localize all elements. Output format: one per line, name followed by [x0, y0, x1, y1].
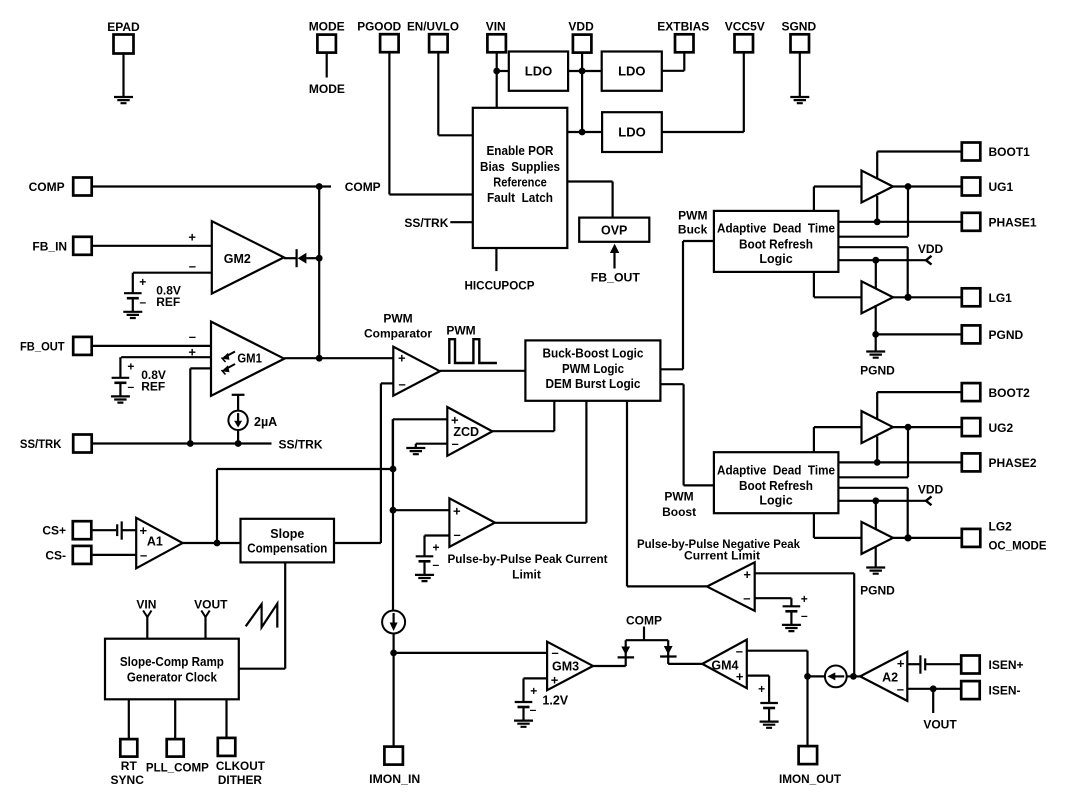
wire GM2 output to diode — [284, 257, 297, 259]
wire UG2 sense — [907, 427, 909, 477]
svg-text:–: – — [189, 259, 196, 274]
LDO regulator 3 — [602, 112, 662, 152]
svg-text:PWM: PWM — [383, 312, 412, 326]
svg-text:Boot Refresh: Boot Refresh — [739, 479, 813, 493]
wire A1 output to slope compensation — [183, 542, 241, 544]
svg-text:–: – — [801, 608, 808, 622]
node COMP junction — [316, 183, 323, 190]
battery 0.8V REF for GM2 — [124, 292, 142, 294]
svg-text:VIN: VIN — [136, 598, 156, 612]
wire LG sense — [838, 246, 907, 248]
wire VOUT stub — [932, 689, 934, 713]
svg-text:Limit: Limit — [512, 568, 541, 582]
svg-text:+: + — [139, 275, 146, 289]
wire GM4 + input — [747, 674, 769, 676]
op-amp GM3 — [547, 642, 593, 691]
wire current source to A2 — [847, 675, 860, 677]
wire EXTBIAS to LDO2 — [683, 52, 685, 71]
pin PHASE1 — [962, 213, 981, 231]
svg-text:CLKOUT: CLKOUT — [216, 759, 266, 773]
wire LG output — [893, 296, 962, 298]
svg-text:LG1: LG1 — [989, 291, 1013, 305]
wire GM3 output — [593, 665, 626, 667]
wire COMP to vertical bus — [92, 185, 331, 187]
svg-text:Generator Clock: Generator Clock — [127, 671, 217, 685]
pin BOOT2 — [962, 383, 981, 401]
svg-text:LDO: LDO — [618, 125, 645, 140]
wire GM1 + input — [121, 356, 211, 358]
svg-text:–: – — [399, 377, 406, 392]
wire UG1 sense — [907, 187, 909, 237]
svg-text:VDD: VDD — [918, 242, 944, 256]
pin COMP — [73, 178, 92, 196]
wire VDD vertical — [581, 53, 583, 132]
comparator pulse-by-pulse negative peak current limit — [707, 562, 755, 611]
svg-text:COMP: COMP — [626, 614, 662, 628]
current source IMON — [382, 611, 405, 634]
svg-text:SS/TRK: SS/TRK — [279, 438, 323, 452]
wire PWM comparator - input — [381, 382, 393, 384]
svg-text:+: + — [743, 567, 751, 582]
svg-text:VDD: VDD — [568, 20, 594, 34]
svg-text:PGND: PGND — [860, 584, 895, 598]
wire BOOT2 — [876, 392, 878, 434]
svg-text:VOUT: VOUT — [194, 598, 228, 612]
node PHASE1 junction — [874, 218, 881, 225]
arrow VIN into ramp box — [143, 611, 151, 618]
node VOUT junction — [930, 685, 937, 692]
pin SS/TRK — [73, 435, 92, 453]
node GM3 - junction — [390, 650, 397, 657]
pin CS+ — [73, 521, 92, 539]
wire A2 - input to ISEN- pin — [907, 688, 962, 690]
svg-text:Fault Latch: Fault Latch — [487, 191, 553, 205]
svg-text:LDO: LDO — [618, 64, 645, 79]
wire IMON bus below source — [393, 634, 395, 747]
wire capacitor to ISEN+ pin — [925, 663, 962, 665]
pin UG2 — [962, 418, 981, 436]
svg-text:Buck-Boost Logic: Buck-Boost Logic — [543, 346, 644, 360]
svg-text:VCC5V: VCC5V — [725, 20, 765, 34]
wire ZCD + input — [393, 418, 448, 420]
svg-text:Compensation: Compensation — [247, 542, 327, 556]
svg-text:MODE: MODE — [309, 82, 345, 96]
svg-text:–: – — [189, 329, 196, 344]
buffer lower gate driver — [862, 281, 894, 313]
wire PGND2 to ground — [875, 546, 877, 568]
node PHASE2 junction — [874, 459, 881, 466]
wire PHASE1 — [838, 221, 962, 223]
svg-text:PWM: PWM — [678, 209, 707, 223]
sawtooth symbol — [246, 604, 278, 628]
svg-text:–: – — [736, 644, 743, 659]
wire HICCUPOCP from Enable box — [495, 248, 497, 271]
svg-text:DEM Burst Logic: DEM Burst Logic — [546, 377, 641, 391]
svg-text:–: – — [743, 591, 750, 606]
svg-text:FB_OUT: FB_OUT — [20, 339, 65, 353]
wire peak limit + input — [393, 509, 449, 511]
svg-text:RT: RT — [121, 759, 138, 773]
ground EPAD — [114, 97, 133, 103]
svg-text:GM2: GM2 — [224, 252, 251, 266]
svg-text:1.2V: 1.2V — [542, 694, 568, 708]
svg-text:–: – — [139, 295, 146, 309]
svg-text:UG1: UG1 — [989, 180, 1014, 194]
svg-text:GM1: GM1 — [237, 351, 262, 365]
svg-text:Slope: Slope — [270, 527, 304, 541]
ground SGND — [790, 97, 809, 103]
wire GM2 - input — [133, 272, 212, 274]
svg-text:LDO: LDO — [525, 64, 552, 79]
wire capacitor to A1 + input — [122, 529, 137, 531]
wire GM1 output to PWM comparator — [284, 357, 393, 359]
ground PGND2 — [866, 568, 885, 574]
node GM2 diode junction — [316, 255, 323, 262]
pin PLL_COMP — [167, 739, 184, 757]
svg-text:Boot Refresh: Boot Refresh — [739, 238, 813, 252]
svg-text:ZCD: ZCD — [453, 425, 479, 439]
battery peak limit ref — [416, 555, 434, 557]
buffer upper gate driver — [862, 171, 894, 203]
svg-text:VIN: VIN — [486, 20, 506, 34]
pin PGND — [962, 325, 981, 343]
wire slope line y469 — [217, 468, 393, 470]
pin LG1 — [962, 288, 981, 306]
node A1 output junction — [214, 540, 221, 547]
pin EXTBIAS — [675, 34, 694, 52]
node UG junction — [905, 424, 912, 431]
wire RT — [128, 699, 130, 739]
PWM waveform symbol — [449, 339, 497, 364]
battery GM4 ref — [760, 702, 778, 704]
capacitor A1 input — [116, 524, 118, 536]
pin FB_IN — [73, 237, 92, 255]
svg-text:Adaptive Dead Time: Adaptive Dead Time — [717, 222, 835, 236]
wire EN/UVLO to Enable POR box — [437, 52, 439, 135]
svg-text:PGND: PGND — [989, 328, 1024, 342]
svg-text:BOOT1: BOOT1 — [989, 145, 1031, 159]
wire junction to A2 current source — [808, 675, 825, 677]
pin CLKOUT — [218, 738, 236, 756]
svg-text:EN/UVLO: EN/UVLO — [407, 20, 459, 34]
svg-text:LG2: LG2 — [989, 520, 1013, 534]
svg-text:–: – — [128, 379, 135, 393]
svg-text:+: + — [398, 351, 406, 366]
ground ZCD — [406, 448, 425, 454]
arrow VDD — [926, 496, 932, 505]
wire dead-time box to lower driver input — [813, 513, 815, 538]
svg-text:SYNC: SYNC — [111, 773, 145, 787]
svg-text:EXTBIAS: EXTBIAS — [657, 20, 709, 34]
svg-text:ISEN-: ISEN- — [989, 684, 1021, 698]
svg-text:IMON_IN: IMON_IN — [369, 772, 420, 786]
svg-text:EPAD: EPAD — [107, 20, 140, 34]
svg-text:REF: REF — [141, 379, 165, 393]
wire SS/TRK to Enable box — [450, 221, 473, 223]
svg-text:PWM: PWM — [446, 324, 475, 338]
svg-text:FB_IN: FB_IN — [32, 239, 67, 253]
svg-text:+: + — [530, 684, 537, 698]
Slope-Comp Ramp Generator Clock block — [105, 639, 239, 700]
svg-text:CS-: CS- — [45, 548, 66, 562]
COMP mirror left diode — [625, 640, 627, 666]
svg-text:+: + — [897, 656, 905, 671]
svg-text:VDD: VDD — [918, 482, 944, 496]
wire VDD supply line — [838, 259, 926, 261]
wire GM4 - input — [747, 650, 808, 652]
svg-text:OC_MODE: OC_MODE — [989, 539, 1047, 553]
wire VIN to LDO1 — [497, 70, 509, 72]
svg-text:COMP: COMP — [345, 180, 381, 194]
node VIN-LDO junction — [493, 68, 500, 75]
node VDD junction — [872, 257, 879, 264]
wire LDO1 to LDO2 — [568, 70, 602, 72]
pin MODE — [317, 35, 336, 53]
wire current-limit bus vertical — [392, 419, 394, 611]
wire Enable box to LDO3 — [567, 131, 602, 133]
pin IMON_OUT — [799, 746, 818, 764]
wire FB_IN to GM2 + input — [92, 245, 212, 247]
wire ZCD output to logic box — [492, 430, 554, 432]
svg-text:UG2: UG2 — [989, 421, 1014, 435]
svg-text:PHASE2: PHASE2 — [989, 456, 1037, 470]
Adaptive Dead Time Boot Refresh Logic block 2 — [714, 452, 839, 513]
svg-text:CS+: CS+ — [42, 524, 66, 538]
node UG junction — [905, 183, 912, 190]
svg-text:+: + — [432, 540, 439, 554]
GM1 internal arrows — [224, 352, 235, 358]
pin RT — [120, 739, 137, 757]
wire dead-time box to upper driver input (UG1) — [813, 187, 815, 211]
wire peak limit output to logic box — [495, 522, 587, 524]
op-amp PWM comparator — [393, 347, 440, 396]
node VDD junction — [872, 497, 879, 504]
node LG junction — [904, 294, 911, 301]
battery 0.8V REF for GM1 — [112, 377, 130, 379]
svg-text:Buck: Buck — [678, 223, 708, 237]
ground PGND1 — [866, 352, 885, 358]
svg-text:Bias Supplies: Bias Supplies — [480, 160, 560, 174]
wire UG1 output — [893, 185, 962, 187]
svg-text:SS/TRK: SS/TRK — [20, 437, 62, 451]
pin CS- — [73, 546, 92, 564]
wire PGOOD to Enable POR box — [388, 52, 390, 194]
wire dead-time box to lower driver input — [813, 272, 815, 297]
pin PGOOD — [380, 34, 399, 52]
Buck-Boost PWM DEM logic block — [525, 340, 660, 400]
node SS/TRK junction 2 — [235, 440, 242, 447]
svg-text:SGND: SGND — [781, 20, 816, 34]
svg-text:+: + — [758, 682, 765, 696]
current source A2 output — [825, 666, 847, 688]
svg-text:–: – — [530, 702, 537, 716]
node A2 apex junction — [850, 673, 857, 680]
svg-text:SS/TRK: SS/TRK — [404, 216, 448, 230]
svg-text:–: – — [552, 645, 559, 660]
comparator ZCD — [447, 407, 492, 456]
svg-text:Comparator: Comparator — [364, 327, 432, 341]
wire VIN down into Enable POR box — [496, 52, 498, 108]
wire CS+ to capacitor — [91, 529, 116, 531]
wire PGND1 to ground — [875, 334, 877, 351]
wire IMON_OUT — [806, 676, 808, 746]
wire PLL_COMP — [174, 699, 176, 739]
wire A2 + input to capacitor — [907, 663, 921, 665]
node LG junction — [904, 534, 911, 541]
wire Enable box to OVP — [567, 180, 612, 182]
capacitor ISEN+ — [919, 655, 921, 673]
svg-text:VOUT: VOUT — [923, 718, 957, 732]
svg-text:2µA: 2µA — [254, 415, 277, 429]
node PGND1 junction — [872, 331, 879, 338]
wire ramp box to slope compensation — [239, 668, 285, 670]
pin LG2 — [962, 529, 981, 547]
wire SGND to ground — [799, 52, 801, 97]
pin VDD — [573, 35, 592, 53]
svg-text:Current Limit: Current Limit — [684, 549, 760, 563]
Slope Compensation block — [241, 519, 335, 563]
wire LG sense — [838, 487, 907, 489]
svg-text:Logic: Logic — [759, 252, 792, 266]
current source 2uA — [232, 394, 245, 396]
Enable POR Bias Supplies Reference Fault Latch block — [473, 108, 568, 248]
svg-text:HICCUPOCP: HICCUPOCP — [465, 279, 535, 293]
svg-text:+: + — [551, 673, 559, 688]
diode at GM2 output — [296, 249, 298, 267]
svg-text:Reference: Reference — [493, 176, 547, 190]
svg-text:Slope-Comp Ramp: Slope-Comp Ramp — [120, 655, 224, 669]
svg-text:PHASE1: PHASE1 — [989, 216, 1037, 230]
wire PGND1 line — [875, 305, 877, 334]
comparator pulse-by-pulse peak current limit — [449, 498, 495, 547]
wire negative peak + input — [755, 572, 855, 574]
node SS/TRK junction 1 — [187, 440, 194, 447]
wire PWM Buck from logic to dead-time 1 — [660, 368, 683, 370]
node y469 junction — [390, 466, 397, 473]
battery 1.2V for GM3 — [515, 701, 533, 703]
pin BOOT1 — [962, 143, 981, 161]
svg-text:Boost: Boost — [662, 505, 696, 519]
arrow VOUT into ramp box — [201, 611, 209, 618]
svg-text:PWM Logic: PWM Logic — [562, 362, 624, 376]
svg-text:–: – — [454, 527, 461, 542]
node VDD-LDO junction — [579, 68, 586, 75]
svg-text:Adaptive Dead Time: Adaptive Dead Time — [717, 463, 835, 477]
wire LG output — [893, 537, 962, 539]
node peak limit + junction — [390, 507, 397, 514]
svg-text:Pulse-by-Pulse Peak Current: Pulse-by-Pulse Peak Current — [448, 552, 608, 566]
svg-text:IMON_OUT: IMON_OUT — [779, 772, 842, 786]
svg-text:OVP: OVP — [601, 224, 627, 238]
Adaptive Dead Time Boot Refresh Logic block 1 — [714, 211, 839, 272]
wire CLKOUT — [225, 699, 227, 738]
svg-text:+: + — [453, 504, 461, 519]
buffer upper gate driver — [862, 411, 894, 443]
svg-text:A2: A2 — [882, 671, 898, 685]
svg-text:DITHER: DITHER — [218, 773, 262, 787]
wire SS/TRK horizontal — [92, 442, 272, 444]
LDO regulator 2 — [602, 52, 662, 91]
node IMON_OUT junction — [804, 673, 811, 680]
svg-text:A1: A1 — [147, 535, 163, 549]
svg-text:GM3: GM3 — [552, 660, 579, 674]
COMP mirror right diode — [667, 640, 669, 664]
svg-text:+: + — [188, 230, 196, 245]
svg-text:ISEN+: ISEN+ — [989, 658, 1024, 672]
pin VIN — [487, 34, 506, 52]
svg-text:–: – — [140, 548, 147, 563]
svg-text:Enable POR: Enable POR — [487, 144, 554, 158]
pin ISEN- — [961, 681, 980, 699]
wire COMP vertical bus — [318, 187, 320, 359]
wire VDD supply line — [838, 500, 926, 502]
svg-text:PGOOD: PGOOD — [357, 20, 401, 34]
arrow FB_OUT into OVP — [613, 253, 615, 269]
svg-text:Logic: Logic — [759, 494, 792, 508]
wire MODE stub — [326, 53, 328, 78]
wire slope comp output to PWM - bus — [334, 542, 381, 544]
node GM1 output junction — [316, 355, 323, 362]
svg-text:+: + — [188, 344, 196, 359]
wire diode to COMP bus — [306, 257, 319, 259]
OVP block — [579, 218, 649, 242]
wire PHASE2 — [838, 461, 962, 463]
wire negative peak output to logic box — [626, 401, 628, 587]
svg-text:+: + — [127, 359, 134, 373]
svg-text:MODE: MODE — [309, 20, 345, 34]
wire negative peak - input — [755, 597, 792, 599]
svg-text:BOOT2: BOOT2 — [989, 386, 1031, 400]
svg-text:PLL_COMP: PLL_COMP — [146, 761, 209, 775]
svg-text:REF: REF — [156, 295, 180, 309]
wire CS- to A1 - input — [91, 554, 136, 556]
pin SGND — [791, 34, 810, 52]
buffer lower gate driver — [862, 522, 894, 554]
wire PWM Boost from logic to dead-time 2 — [660, 383, 683, 385]
pin ISEN+ — [961, 656, 980, 674]
pin VCC5V — [735, 34, 754, 52]
svg-text:COMP: COMP — [29, 180, 65, 194]
op-amp A1 — [136, 518, 182, 569]
wire EPAD to ground — [122, 54, 124, 98]
wire dead-time box to upper driver input (UG2) — [813, 427, 815, 451]
svg-text:GM4: GM4 — [711, 659, 738, 673]
wire UG2 output — [893, 426, 962, 428]
pin FB_OUT — [73, 337, 92, 355]
svg-text:PWM: PWM — [664, 490, 693, 504]
COMP mirror stem — [643, 627, 645, 641]
pin IMON_IN — [384, 747, 403, 765]
wire GM3 + input — [524, 677, 548, 679]
pin EPAD — [114, 35, 134, 54]
node VDD-LDO3 junction — [579, 129, 586, 136]
wire ZCD - input to ground — [416, 443, 448, 445]
svg-text:+: + — [801, 592, 808, 606]
LDO regulator 1 — [509, 52, 568, 91]
wire GM3 - input — [394, 652, 547, 654]
svg-text:–: – — [432, 558, 439, 572]
wire FB_OUT to GM1 - input — [92, 345, 211, 347]
pin EN/UVLO — [429, 34, 448, 52]
wire BOOT1 — [876, 152, 878, 194]
wire GM4 output — [668, 663, 702, 665]
pin PHASE2 — [962, 453, 981, 471]
wire VCC5V to LDO3 — [743, 52, 745, 132]
wire PWM comparator output — [440, 370, 526, 372]
pin UG1 — [962, 178, 981, 196]
wire peak limit - input — [425, 534, 450, 536]
arrow VDD — [926, 256, 932, 265]
